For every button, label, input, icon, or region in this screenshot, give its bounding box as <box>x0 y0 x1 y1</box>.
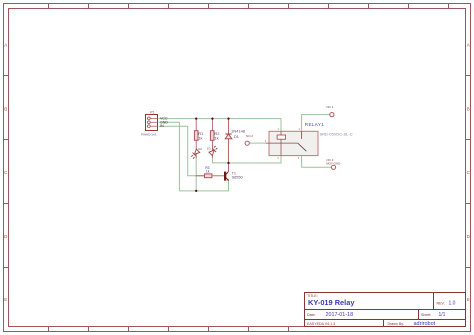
svg-text:A: A <box>4 43 7 48</box>
svg-text:B: B <box>4 107 7 112</box>
diode D1 1N4148 <box>225 119 232 163</box>
pad NO.3 <box>331 165 335 169</box>
wire ground bottom rail <box>179 181 228 191</box>
frame column ticks bottom <box>49 327 289 332</box>
wire relay pin5 to pad NO.3 <box>302 156 332 168</box>
junction node VCC-R1 <box>195 117 197 119</box>
svg-text:1.0: 1.0 <box>449 301 456 307</box>
svg-text:Date:: Date: <box>307 313 316 317</box>
svg-text:NO.1: NO.1 <box>326 105 333 109</box>
wire pad NO.2 to relay common <box>250 142 266 144</box>
relay common line pin3 <box>266 142 298 144</box>
junction node VCC-D1 <box>227 117 229 119</box>
wire node to relay coil bottom <box>229 156 282 163</box>
relay RELAY1 body <box>269 131 318 155</box>
svg-text:1k: 1k <box>198 135 202 140</box>
LED D3 <box>209 145 219 157</box>
svg-text:SRD-05VDC-SL-C: SRD-05VDC-SL-C <box>320 131 353 136</box>
pad NO.1 <box>330 113 334 117</box>
relay NO contact lead pin4 <box>301 131 303 139</box>
frame row ticks left <box>4 76 9 268</box>
svg-text:2017-01-18: 2017-01-18 <box>326 312 354 318</box>
wire relay pin4 to pad NO.1 <box>302 115 330 132</box>
svg-text:1k: 1k <box>214 135 218 140</box>
svg-text:RELAY1: RELAY1 <box>305 122 324 127</box>
frame row ticks right <box>466 76 471 268</box>
svg-text:D3: D3 <box>207 146 211 150</box>
svg-text:REV:: REV: <box>437 302 445 306</box>
svg-text:1k: 1k <box>206 169 210 173</box>
LED D2 <box>190 147 200 159</box>
resistor R3 <box>196 174 225 178</box>
svg-text:B: B <box>467 107 470 112</box>
svg-text:IN: IN <box>160 124 164 128</box>
header P1 <box>146 115 158 131</box>
title block values <box>308 298 355 307</box>
svg-text:EASYEDA V4.1.3: EASYEDA V4.1.3 <box>307 322 335 326</box>
junction node VCC-R2 <box>211 117 213 119</box>
frame row letters right <box>467 43 471 303</box>
frame row letters left <box>4 43 8 303</box>
svg-text:Drawn By:: Drawn By: <box>388 322 405 326</box>
wire IN from header <box>159 126 204 176</box>
junction node LED1-GND rail <box>195 190 197 192</box>
svg-text:E: E <box>4 297 7 302</box>
wire LED1 cathode to ground rail <box>195 158 197 191</box>
relay coil <box>277 131 286 155</box>
svg-text:adrirobot: adrirobot <box>414 321 436 327</box>
relay switch blade <box>298 143 307 151</box>
resistor R2 <box>210 119 214 147</box>
svg-text:P1: P1 <box>150 110 154 114</box>
relay pin numbers <box>265 129 301 160</box>
svg-text:D2: D2 <box>198 147 202 151</box>
wire VCC rail <box>159 119 282 132</box>
svg-text:PINHD-1X3: PINHD-1X3 <box>141 132 156 136</box>
svg-text:A: A <box>467 43 470 48</box>
title block outline <box>305 293 466 327</box>
wire LED2 cathode to node <box>212 157 228 163</box>
wire GND from header <box>159 122 180 191</box>
svg-text:E: E <box>467 297 470 302</box>
svg-text:S8550: S8550 <box>232 176 243 180</box>
title block field labels <box>307 294 445 326</box>
resistor R1 <box>194 119 198 147</box>
frame column ticks top <box>49 4 449 9</box>
junction node D1-collector <box>227 162 229 164</box>
svg-text:D1: D1 <box>234 134 240 139</box>
svg-text:NO.2: NO.2 <box>246 134 253 138</box>
transistor T1 S8550 <box>224 163 229 181</box>
svg-text:1/1: 1/1 <box>439 312 446 318</box>
pad NO.2 <box>245 141 249 145</box>
svg-text:Sheet:: Sheet: <box>421 313 431 317</box>
svg-text:KY-019 Relay: KY-019 Relay <box>308 298 355 307</box>
svg-text:MOT-GND: MOT-GND <box>326 162 341 166</box>
